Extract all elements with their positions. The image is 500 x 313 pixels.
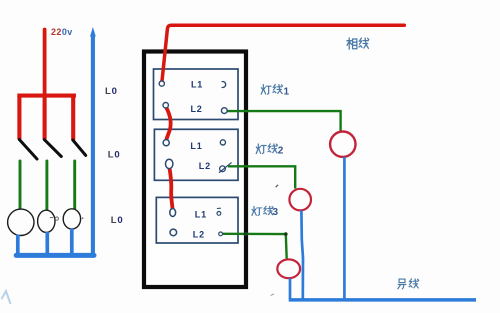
module 2 terminal L1 right xyxy=(220,140,225,145)
wire: green 灯线1 from M1.L2 to lampholder 1 xyxy=(227,111,340,131)
module 1 terminal L2 left xyxy=(163,103,168,108)
svg-text:L0: L0 xyxy=(105,86,118,97)
wire: blue neutral riser L0 xyxy=(91,36,95,256)
switch module 2 (blue rect) xyxy=(154,129,238,180)
lamp 3 xyxy=(63,209,80,229)
module 1 terminal L1 right (open arc) xyxy=(222,82,226,88)
module 3 terminal L1 left xyxy=(170,209,176,217)
stray light-blue pen mark bottom-left xyxy=(2,291,11,304)
label 灯线2 xyxy=(256,144,277,154)
svg-text:L0: L0 xyxy=(108,149,121,160)
wire: green 灯线2 from M2.L2 to lampholder 2 xyxy=(228,166,295,188)
svg-text:L0: L0 xyxy=(111,215,124,226)
wire: red drop to switch blade 3 xyxy=(71,96,75,140)
label 相线 xyxy=(347,38,369,49)
svg-text:220v: 220v xyxy=(51,27,73,37)
label 灯线3 xyxy=(252,206,273,215)
switch box (black enclosure) xyxy=(144,52,246,288)
wire: blue drop from lampholder 2 xyxy=(301,211,303,299)
svg-text:L2: L2 xyxy=(199,161,211,171)
stray pen tick near bottom bus xyxy=(271,294,274,296)
lamp 1 xyxy=(8,209,34,235)
svg-text:L1: L1 xyxy=(195,210,207,220)
module 3 terminal L1 right (small circle with dash above) xyxy=(217,212,221,216)
wire: phase line top (red) from box to right xyxy=(162,25,404,82)
lampholder circle 1 xyxy=(330,132,355,157)
wire: red distribution bar xyxy=(19,94,74,98)
lampholder circle 3 xyxy=(277,259,300,278)
wire: blue bus 另线 (bottom) xyxy=(289,298,476,302)
module 2 terminal L2 right (with pen tail) xyxy=(220,166,226,172)
wire: red drop to switch blade 2 xyxy=(43,96,47,140)
svg-text:1: 1 xyxy=(284,86,290,97)
module 3 terminal L2 right xyxy=(219,232,223,236)
lampholder circle 2 xyxy=(289,189,311,211)
svg-text:2: 2 xyxy=(278,146,284,157)
small pen marks near lamps xyxy=(50,217,53,219)
label 灯线1 xyxy=(261,85,282,95)
wire: blue lamp return 2 xyxy=(45,232,49,255)
stray pen tick near module 2 wire xyxy=(276,185,278,187)
svg-text:L1: L1 xyxy=(191,79,203,89)
svg-text:L2: L2 xyxy=(193,229,205,239)
module 2 terminal L1 left xyxy=(163,140,169,146)
wire: blue neutral bus (left) xyxy=(16,253,94,258)
wire: green lamp lead 1 xyxy=(19,161,22,209)
module 1 terminal L2 right xyxy=(221,108,227,114)
svg-text:L1: L1 xyxy=(190,141,202,151)
label 另线 xyxy=(398,279,419,289)
module 1 terminal L1 left xyxy=(159,81,164,86)
switch module 3 (blue rect) xyxy=(156,197,238,243)
wire: blue drop from lampholder 1 xyxy=(343,157,346,299)
module 3 terminal L2 left xyxy=(170,229,177,236)
elbow dot on green 3 xyxy=(284,232,288,236)
switch blade 2 (black knife) xyxy=(44,140,61,157)
switch module 1 (blue rect) xyxy=(154,69,239,120)
lamp 2 xyxy=(38,210,55,232)
wire: red jumper M1.L2 to M2.L1 xyxy=(166,107,171,142)
module 2 terminal L2 left xyxy=(166,159,173,168)
wire: blue drop from lampholder 3 xyxy=(289,278,292,298)
wire: red drop to switch blade 1 xyxy=(17,96,21,140)
wire: green 灯线3 from M3.L2 to lampholder 3 xyxy=(223,234,287,259)
wire: blue lamp return 3 xyxy=(70,229,74,256)
wire: green lamp lead 2 xyxy=(45,161,48,210)
junction dot on green 3 at box edge xyxy=(244,232,248,236)
svg-text:3: 3 xyxy=(273,207,279,218)
switch blade 3 (black knife) xyxy=(73,140,86,155)
wire: red jumper M2.L2 to M3.L1 xyxy=(169,167,172,209)
wire: green lamp lead 3 xyxy=(73,161,76,209)
svg-text:L2: L2 xyxy=(191,104,203,114)
wire: blue lamp return 1 xyxy=(16,235,20,256)
switch blade 1 (black knife) xyxy=(19,140,37,160)
arrowhead of neutral riser xyxy=(90,27,96,37)
wire: 220v red riser (left) xyxy=(43,30,47,96)
